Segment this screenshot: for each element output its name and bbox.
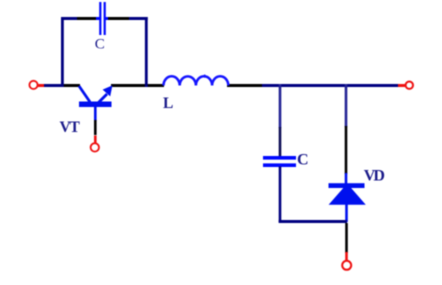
svg-text:C: C [297, 151, 309, 168]
svg-text:VD: VD [364, 168, 385, 185]
svg-text:C: C [95, 37, 105, 53]
svg-text:VT: VT [60, 119, 81, 136]
svg-text:L: L [163, 95, 173, 112]
